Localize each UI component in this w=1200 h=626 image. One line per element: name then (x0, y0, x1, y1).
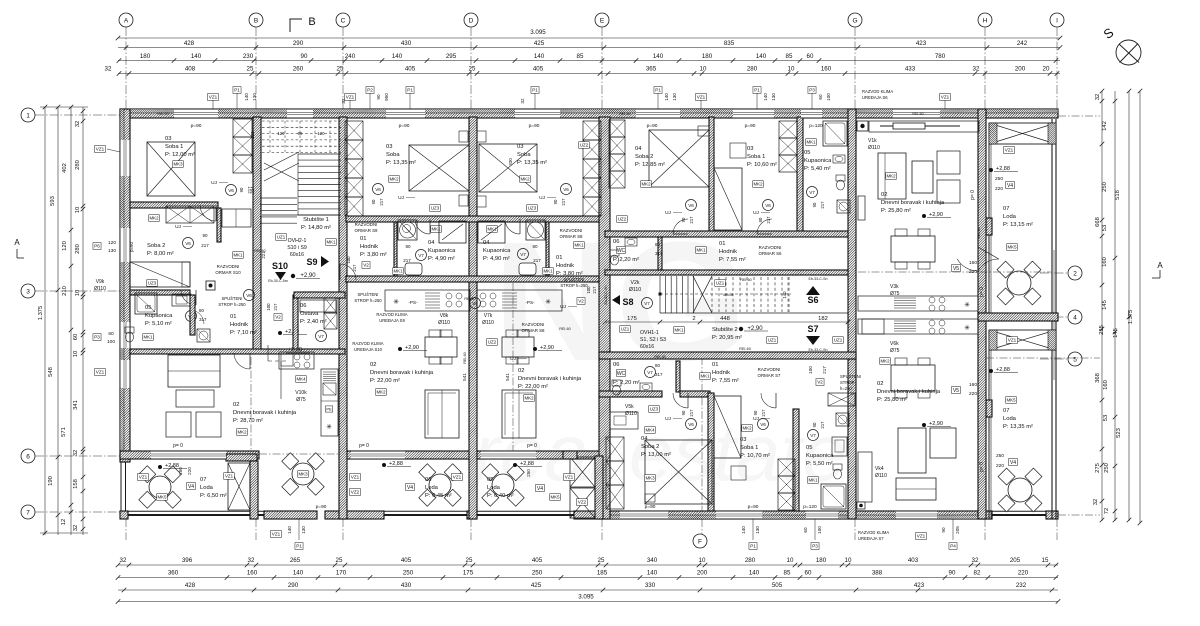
svg-text:Soba 1: Soba 1 (165, 144, 183, 150)
svg-text:Dnevni boravak i kuhinja: Dnevni boravak i kuhinja (881, 200, 945, 206)
svg-text:P: 10,60 m²: P: 10,60 m² (747, 162, 777, 168)
wc EG fixtures (610, 250, 619, 256)
svg-text:Soba 1: Soba 1 (740, 445, 758, 451)
svg-text:220: 220 (996, 463, 1004, 469)
svg-text:P: 28,70 m²: P: 28,70 m² (233, 418, 263, 424)
svg-text:290: 290 (288, 582, 299, 589)
svg-text:80: 80 (532, 244, 538, 249)
svg-text:VZ1: VZ1 (139, 475, 148, 480)
wall party D (469, 117, 477, 519)
svg-text:UZ1: UZ1 (768, 338, 777, 343)
svg-text:340: 340 (647, 557, 658, 564)
svg-text:03: 03 (740, 437, 746, 443)
grid axis E (595, 13, 609, 27)
svg-text:317: 317 (199, 317, 207, 322)
svg-text:SPUŠTENI: SPUŠTENI (358, 292, 379, 297)
svg-text:140: 140 (653, 53, 664, 60)
svg-text:160: 160 (969, 382, 977, 388)
svg-text:2: 2 (1073, 270, 1077, 277)
svg-text:01: 01 (719, 241, 725, 247)
svg-text:25: 25 (466, 557, 473, 564)
svg-text:UZ2: UZ2 (580, 143, 589, 148)
bed soba2 unit1 (130, 262, 190, 287)
svg-text:160: 160 (247, 570, 258, 577)
svg-text:V7: V7 (809, 190, 815, 195)
svg-text:REI-60: REI-60 (463, 352, 467, 363)
svg-text:S7: S7 (807, 324, 818, 334)
svg-text:100: 100 (808, 366, 813, 374)
svg-text:60: 60 (807, 53, 814, 60)
window bottom 4 (896, 511, 937, 519)
svg-text:REI-60: REI-60 (740, 278, 751, 282)
svg-text:P: 2,40 m²: P: 2,40 m² (300, 319, 327, 325)
svg-text:280: 280 (75, 244, 81, 254)
svg-text:SPUŠTENI: SPUŠTENI (840, 374, 861, 379)
svg-text:VZ1: VZ1 (96, 147, 105, 152)
svg-text:MK2: MK2 (886, 174, 896, 179)
svg-text:MK3: MK3 (645, 476, 655, 481)
svg-text:V2: V2 (578, 299, 584, 304)
svg-text:90: 90 (298, 131, 303, 136)
svg-text:180: 180 (816, 557, 827, 564)
vz boxes right (1004, 147, 1015, 154)
svg-text:V6: V6 (688, 203, 694, 208)
svg-text:UREĐAJA S10: UREĐAJA S10 (354, 347, 383, 352)
svg-text:260: 260 (293, 66, 304, 73)
svg-text:P: 13,35 m²: P: 13,35 m² (386, 160, 416, 166)
svg-text:UZ2: UZ2 (488, 340, 497, 345)
svg-text:72: 72 (1104, 508, 1110, 514)
grid axis D (464, 13, 478, 27)
svg-text:90: 90 (376, 94, 381, 100)
wall bedroom divider bottom right (708, 393, 714, 511)
svg-text:07: 07 (200, 477, 206, 483)
svg-text:32: 32 (1095, 94, 1101, 100)
wall ostava left unit1 (293, 295, 298, 349)
uz box row3 (276, 234, 287, 241)
v4 boxes (187, 482, 196, 489)
vent circle V6 (763, 200, 774, 211)
svg-text:100: 100 (817, 526, 822, 534)
svg-text:403: 403 (908, 557, 919, 564)
wardrobe FG soba1 (778, 459, 795, 476)
svg-text:p=90: p=90 (529, 123, 540, 129)
svg-text:317: 317 (655, 372, 663, 377)
svg-text:P: 6,40 m²: P: 6,40 m² (487, 493, 514, 499)
svg-text:10: 10 (845, 557, 852, 564)
svg-text:130: 130 (301, 526, 306, 534)
svg-text:V4: V4 (1010, 460, 1016, 466)
svg-text:90: 90 (812, 422, 817, 427)
svg-text:82: 82 (974, 570, 981, 577)
svg-text:90: 90 (681, 410, 686, 415)
window bottom 2 (716, 511, 762, 519)
svg-text:VZ1: VZ1 (225, 474, 234, 479)
svg-text:425: 425 (534, 40, 545, 47)
staircase1 arrow (275, 272, 286, 280)
svg-text:UZ1: UZ1 (834, 338, 843, 343)
svg-text:130: 130 (252, 93, 257, 101)
top label VZ1 (208, 94, 219, 101)
svg-text:P: 25,80 m²: P: 25,80 m² (877, 397, 907, 403)
svg-text:835: 835 (724, 40, 735, 47)
svg-text:Kupaonica: Kupaonica (806, 453, 834, 459)
svg-text:p= 0: p= 0 (979, 462, 985, 472)
dim top row1 (118, 47, 1060, 49)
svg-text:Loda: Loda (1003, 416, 1017, 422)
interior dash y272 (858, 271, 1051, 273)
kitchen GH top (858, 296, 978, 311)
svg-text:VZ1: VZ1 (96, 370, 105, 375)
window top 6 (733, 109, 774, 118)
svg-text:+2,88: +2,88 (165, 463, 179, 469)
svg-text:100: 100 (826, 93, 831, 101)
svg-text:Soba 2: Soba 2 (147, 243, 165, 249)
svg-text:140: 140 (293, 570, 304, 577)
svg-text:10: 10 (73, 351, 79, 357)
washer CD X (400, 222, 413, 235)
loggia table right bottom (1008, 478, 1032, 502)
svg-text:RAZVODNI: RAZVODNI (355, 222, 378, 227)
top label P1 (233, 87, 241, 94)
svg-text:STROP h=250: STROP h=250 (560, 283, 588, 288)
svg-text:220: 220 (969, 391, 977, 397)
wall party H (978, 109, 986, 519)
svg-text:Dnevni boravak i kuhinja: Dnevni boravak i kuhinja (233, 410, 297, 416)
svg-text:Hodnik: Hodnik (712, 370, 730, 376)
svg-text:UJ: UJ (753, 416, 759, 422)
svg-text:1.375: 1.375 (1128, 310, 1134, 325)
svg-text:523: 523 (1116, 428, 1122, 438)
kitchen CD (385, 290, 470, 311)
svg-text:MK1: MK1 (806, 140, 816, 145)
wall party G (848, 109, 856, 519)
grid axis 4 (1068, 310, 1082, 324)
svg-text:145: 145 (1102, 300, 1108, 310)
svg-text:Vk4: Vk4 (875, 466, 884, 472)
svg-text:02: 02 (233, 402, 239, 408)
svg-text:VZ1: VZ1 (346, 95, 355, 100)
svg-text:REI-60: REI-60 (912, 112, 923, 116)
balcony rail top right (989, 123, 1056, 144)
svg-text:Loda: Loda (487, 485, 501, 491)
svg-text:MK3: MK3 (173, 162, 183, 167)
wall party B (253, 117, 261, 353)
svg-text:P: 20,95 m²: P: 20,95 m² (712, 335, 742, 341)
svg-text:80: 80 (199, 308, 205, 313)
wardrobe DE col (583, 121, 601, 140)
svg-text:V1k: V1k (868, 138, 877, 144)
svg-text:UZ3: UZ3 (528, 206, 537, 211)
wall under soba1 unit1 (130, 202, 218, 208)
svg-text:405: 405 (405, 66, 416, 73)
svg-text:B: B (308, 16, 315, 28)
svg-text:140: 140 (191, 53, 202, 60)
svg-text:140: 140 (782, 291, 787, 299)
wall terrace bottom (264, 511, 317, 519)
terrace open edge (259, 453, 339, 455)
wall bottom main C-E (339, 451, 610, 459)
vent circle V6 (686, 200, 697, 211)
uz2 dining DE (487, 339, 498, 346)
svg-text:140: 140 (664, 93, 669, 101)
svg-text:60: 60 (73, 334, 79, 340)
svg-text:Dnevni boravak i kuhinja: Dnevni boravak i kuhinja (518, 376, 582, 382)
svg-text:402: 402 (62, 163, 68, 173)
dim top total 3.095 (118, 37, 1060, 39)
svg-text:20: 20 (1043, 66, 1050, 73)
door FG soba2 (673, 393, 688, 408)
svg-text:P. 2,20 m²: P. 2,20 m² (613, 257, 639, 263)
svg-text:10: 10 (75, 207, 81, 213)
svg-text:32: 32 (520, 98, 525, 104)
v2 box E wall (577, 298, 585, 305)
svg-text:4: 4 (1073, 314, 1077, 321)
svg-text:P4: P4 (950, 544, 956, 549)
grid axis 6 (21, 449, 35, 463)
svg-text:V4: V4 (188, 484, 194, 490)
svg-text:408: 408 (185, 66, 196, 73)
svg-text:Hodnik: Hodnik (360, 244, 378, 250)
svg-text:295: 295 (446, 53, 457, 60)
svg-text:REI-60: REI-60 (739, 347, 751, 351)
svg-text:548: 548 (48, 367, 54, 377)
svg-text:7: 7 (26, 509, 30, 516)
svg-text:Ø75: Ø75 (890, 291, 900, 297)
svg-text:140: 140 (287, 526, 292, 534)
section mark B top (290, 19, 302, 32)
svg-text:P1: P1 (296, 544, 302, 549)
grid axis 7 (21, 505, 35, 519)
wall bottom main right (610, 511, 992, 519)
svg-text:05: 05 (804, 150, 810, 156)
ostava closet (324, 297, 337, 313)
svg-text:P1: P1 (655, 88, 661, 93)
svg-text:MK2: MK2 (389, 177, 399, 182)
svg-text:405: 405 (532, 557, 543, 564)
svg-text:388: 388 (872, 570, 883, 577)
svg-text:60: 60 (818, 94, 823, 100)
grid axis F (693, 534, 707, 548)
svg-text:200: 200 (697, 570, 708, 577)
svg-text:02: 02 (877, 381, 883, 387)
svg-text:85: 85 (577, 53, 584, 60)
window top 4 (515, 109, 560, 118)
svg-text:V10k: V10k (295, 390, 307, 396)
window top 2 (287, 109, 313, 118)
svg-text:130: 130 (771, 93, 776, 101)
svg-text:RAZVOD KLIMA: RAZVOD KLIMA (376, 312, 407, 317)
svg-text:V6: V6 (563, 187, 569, 192)
svg-text:P: 13,35 m²: P: 13,35 m² (1003, 424, 1033, 430)
wall party C (339, 117, 347, 519)
svg-text:250: 250 (1104, 463, 1110, 473)
door GH to loggia (957, 259, 978, 271)
svg-text:170: 170 (336, 570, 347, 577)
svg-text:+2,88: +2,88 (520, 461, 534, 467)
svg-text:230: 230 (243, 53, 254, 60)
svg-text:593: 593 (50, 196, 56, 206)
vent circle V6 (244, 290, 255, 301)
wall D bottom block (467, 511, 477, 519)
svg-text:217: 217 (822, 366, 827, 374)
loggia parapet mid1 (384, 510, 470, 512)
bottom vz1b (916, 533, 927, 540)
svg-text:5: 5 (1073, 356, 1077, 363)
svg-text:RAZVODNI: RAZVODNI (759, 245, 782, 250)
wall hodnik-kup CD (394, 222, 397, 276)
svg-text:Loda: Loda (200, 485, 214, 491)
svg-text:S10 i S9: S10 i S9 (287, 245, 307, 251)
svg-text:✳: ✳ (393, 298, 399, 306)
svg-text:280: 280 (747, 66, 758, 73)
svg-text:433: 433 (905, 66, 916, 73)
window top 3 (386, 109, 425, 118)
svg-text:P: 5,10 m²: P: 5,10 m² (145, 321, 172, 327)
svg-text:V6: V6 (472, 301, 478, 306)
svg-text:P1: P1 (754, 88, 760, 93)
svg-text:ORMAR S8: ORMAR S8 (522, 328, 545, 333)
bath unit1 door (190, 310, 204, 324)
svg-text:541: 541 (462, 373, 467, 381)
svg-text:p= 0: p= 0 (359, 443, 369, 449)
svg-text:p= 0: p= 0 (970, 190, 976, 200)
grid axis D lower dash (470, 519, 472, 540)
svg-text:01: 01 (712, 362, 718, 368)
svg-text:217: 217 (689, 409, 694, 417)
grid axis A (119, 13, 133, 27)
wall left outer (120, 109, 130, 460)
svg-text:V7k: V7k (484, 313, 493, 319)
svg-text:p= 0: p= 0 (173, 443, 183, 449)
svg-text:140: 140 (392, 53, 403, 60)
svg-text:3: 3 (26, 288, 30, 295)
svg-text:Kupaonica: Kupaonica (804, 158, 832, 164)
svg-text:03: 03 (747, 146, 753, 152)
loggia left edge line (988, 144, 990, 314)
v2 box right (816, 379, 824, 386)
svg-text:UJ: UJ (539, 195, 545, 201)
svg-text:60: 60 (805, 570, 812, 577)
svg-text:Ø75: Ø75 (890, 348, 900, 354)
svg-text:STROP h=250: STROP h=250 (354, 298, 382, 303)
svg-text:85: 85 (784, 570, 791, 577)
wall hall unit1 (130, 349, 345, 354)
vz1 loggias (138, 474, 149, 481)
svg-text:UZ3: UZ3 (431, 206, 440, 211)
bottom label p1a (295, 543, 303, 550)
grid axis 2 (1068, 266, 1082, 280)
svg-text:p=90: p=90 (129, 242, 134, 252)
svg-text:P: 12,85 m²: P: 12,85 m² (635, 162, 665, 168)
svg-text:60: 60 (803, 527, 808, 533)
svg-text:VZ2: VZ2 (578, 500, 587, 505)
svg-text:V4: V4 (537, 486, 543, 492)
svg-text:P2: P2 (367, 88, 373, 93)
window top 7 (801, 109, 822, 118)
svg-text:217: 217 (403, 258, 411, 263)
svg-text:WC: WC (617, 371, 626, 377)
svg-text:MK1: MK1 (393, 269, 403, 274)
svg-text:P: 4,90 m²: P: 4,90 m² (483, 256, 510, 262)
svg-text:240: 240 (345, 53, 356, 60)
svg-text:242: 242 (1017, 40, 1028, 47)
svg-text:90: 90 (371, 199, 376, 204)
svg-text:VZ1: VZ1 (1005, 148, 1014, 153)
svg-text:120: 120 (62, 241, 68, 251)
svg-text:160: 160 (1103, 380, 1109, 390)
svg-text:V8k: V8k (440, 313, 449, 319)
svg-text:OVH2-1: OVH2-1 (288, 238, 307, 244)
svg-text:217: 217 (201, 243, 209, 248)
bath CD fixtures (398, 220, 417, 240)
loggia table 3 (492, 474, 514, 496)
svg-text:+2,90: +2,90 (300, 273, 316, 279)
svg-text:04: 04 (641, 436, 648, 442)
svg-text:32: 32 (341, 98, 346, 104)
loggia parapet left (120, 510, 264, 512)
window bottom 1 (620, 511, 668, 519)
window left 3 (120, 322, 130, 348)
svg-text:RAZVOD KLIMA: RAZVOD KLIMA (862, 89, 893, 94)
svg-text:UZ1: UZ1 (716, 281, 725, 286)
svg-text:REI-60: REI-60 (254, 249, 265, 253)
svg-text:STROP h=250: STROP h=250 (218, 302, 246, 307)
bed soba1 FG (714, 396, 741, 458)
svg-text:RAZVODNI: RAZVODNI (560, 228, 583, 233)
svg-text:p= 0: p= 0 (979, 287, 985, 297)
svg-text:MK1: MK1 (700, 374, 710, 379)
dim left lines (44, 107, 46, 535)
dim top row2 (118, 60, 1060, 62)
svg-text:MK1: MK1 (233, 253, 243, 258)
svg-text:P1: P1 (407, 88, 413, 93)
svg-text:PE: PE (326, 406, 332, 411)
svg-text:280: 280 (745, 557, 756, 564)
loggia left hatch block (986, 218, 992, 235)
svg-text:V7: V7 (318, 334, 324, 339)
wardrobe EG col left (609, 120, 625, 137)
svg-text:235: 235 (1099, 325, 1105, 335)
grid axis B (249, 13, 263, 27)
svg-text:123: 123 (250, 131, 255, 139)
svg-text:REI-60: REI-60 (654, 355, 665, 359)
svg-text:Ø110: Ø110 (868, 145, 880, 151)
svg-text:V4: V4 (1007, 183, 1013, 189)
svg-text:MK1: MK1 (808, 478, 818, 483)
bath unit1 fixtures (135, 293, 157, 314)
svg-text:VZ1: VZ1 (453, 475, 462, 480)
svg-text:P: 5,50 m²: P: 5,50 m² (806, 461, 833, 467)
svg-text:RAZVODNI: RAZVODNI (758, 367, 781, 372)
wall party E (599, 117, 610, 519)
svg-text:05: 05 (487, 477, 493, 483)
svg-text:265: 265 (290, 557, 301, 564)
wall stair hall bottom (599, 352, 856, 359)
vent circle V6 (183, 238, 194, 249)
svg-text:32: 32 (105, 66, 112, 73)
svg-text:V6: V6 (760, 422, 766, 427)
svg-text:MK1: MK1 (326, 240, 336, 245)
grid axis G (848, 13, 862, 27)
svg-text:330: 330 (645, 582, 656, 589)
bottom label p1b (749, 543, 757, 550)
svg-text:04: 04 (635, 146, 642, 152)
svg-text:90: 90 (812, 202, 817, 207)
svg-text:217: 217 (689, 216, 694, 224)
svg-text:130: 130 (108, 248, 116, 254)
svg-text:P: 8,00 m²: P: 8,00 m² (147, 251, 174, 257)
